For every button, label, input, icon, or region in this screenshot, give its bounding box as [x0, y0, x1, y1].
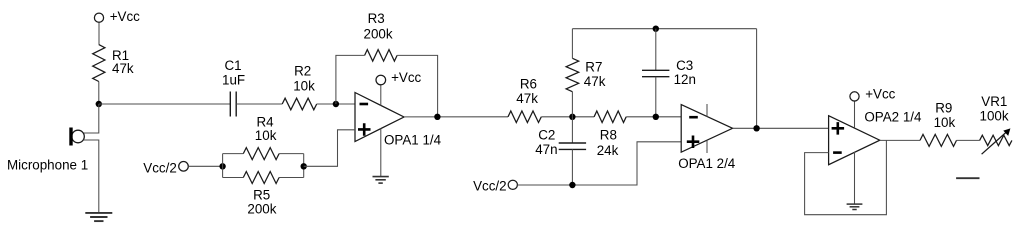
wire: Vcc/2 terminal to divider node — [188, 165, 222, 167]
junction node: output / R3 — [434, 114, 440, 120]
wire: R7 top to feedback rail — [571, 29, 573, 59]
svg-text:Vcc/2: Vcc/2 — [473, 179, 507, 194]
svg-text:12n: 12n — [674, 72, 696, 87]
svg-text:10k: 10k — [255, 128, 277, 143]
wire: node A up to R7 — [571, 92, 573, 117]
power terminal +Vcc (OPA1 1/4) — [376, 75, 386, 85]
wire: OPA1 1/4 output to R6 — [404, 116, 508, 118]
svg-text:10k: 10k — [293, 79, 315, 94]
resistor R2 — [282, 98, 317, 110]
op-amp U1 OPA1 1/4 — [355, 93, 404, 142]
wire: C1 to R2 — [236, 103, 282, 105]
wire: +Vcc terminal 1 to R1 top — [98, 22, 100, 44]
resistor R3 — [365, 50, 398, 62]
svg-text:C1: C1 — [225, 58, 242, 73]
svg-text:200k: 200k — [247, 201, 276, 216]
wire: OPA1 2/4 output to OPA2 input — [733, 127, 829, 129]
ground (OPA2) — [847, 204, 863, 209]
svg-text:Vcc/2: Vcc/2 — [143, 160, 177, 175]
svg-text:+Vcc: +Vcc — [110, 9, 140, 24]
wire: Vcc/2 rail to non-inverting input — [517, 142, 681, 185]
svg-text:R6: R6 — [520, 77, 537, 92]
junction node: R4/R5 left — [219, 163, 225, 169]
wire: feedback top rail — [572, 28, 756, 30]
capacitor C1 — [230, 92, 236, 117]
power terminal Vcc/2 (second stage) — [508, 180, 517, 189]
op-amp U2 OPA1 2/4 — [681, 105, 732, 153]
junction node: output / feedback — [753, 125, 759, 131]
svg-text:OPA1 2/4: OPA1 2/4 — [678, 156, 736, 171]
wire: microphone bottom terminal to ground — [83, 140, 98, 213]
wire: node down to microphone top terminal — [83, 104, 98, 133]
wire: +Vcc terminal to op-amp top — [380, 85, 382, 106]
power terminal Vcc/2 (left) — [179, 162, 189, 172]
wire: feedback loop OPA2 (unity gain) — [805, 140, 887, 214]
wire: OPA2 bottom to ground — [854, 152, 856, 205]
microphone symbol — [69, 128, 84, 146]
power pin stub bottom (OPA1 2/4) — [706, 140, 708, 153]
svg-text:VR1: VR1 — [981, 94, 1007, 109]
ground (microphone) — [85, 213, 112, 221]
wire: R3 right leg down to output node — [397, 55, 438, 116]
wire: R4/R5 parallel frame — [223, 154, 304, 178]
svg-text:C3: C3 — [676, 58, 693, 73]
svg-text:OPA1 1/4: OPA1 1/4 — [384, 132, 442, 147]
resistor R1 — [93, 45, 105, 82]
power terminal +Vcc (top left) — [94, 13, 103, 22]
resistor R7 — [566, 58, 579, 91]
output terminal dash — [956, 177, 979, 179]
wire: C3 down to inverting node — [655, 77, 657, 117]
svg-text:200k: 200k — [364, 26, 393, 41]
svg-text:1uF: 1uF — [222, 73, 245, 88]
wire: R2 to op-amp inverting input — [317, 103, 355, 105]
svg-text:47k: 47k — [584, 74, 606, 89]
wire: op-amp bottom to ground — [380, 128, 382, 176]
wire: +Vcc terminal to OPA2 top — [854, 101, 856, 128]
op-amp U3 OPA2 1/4 — [829, 116, 880, 165]
wire: R6 to node A — [541, 116, 594, 118]
junction node: R2 / R3 / op-amp — [333, 101, 339, 107]
power pin stub top (OPA1 2/4) — [706, 104, 708, 117]
wire: node A down to C2 — [571, 117, 573, 143]
wire: R8 to inverting node — [626, 116, 681, 118]
junction node A: R6/R7/R8/C2 — [569, 114, 575, 120]
junction node: C2 / Vcc/2 rail — [569, 182, 575, 188]
resistor R5 — [243, 172, 279, 184]
svg-text:Microphone 1: Microphone 1 — [7, 158, 88, 173]
svg-text:OPA2 1/4: OPA2 1/4 — [864, 110, 922, 125]
resistor R4 — [243, 148, 279, 160]
minus sign (OPA1 2/4 inverting input) — [689, 116, 698, 119]
svg-text:R7: R7 — [585, 60, 602, 75]
junction node: R4/R5 right — [301, 163, 307, 169]
potentiometer VR1 wiper arrow — [982, 128, 1011, 154]
wire: rail down to C3 — [655, 29, 657, 71]
svg-text:47k: 47k — [516, 91, 538, 106]
wire: C2 down to Vcc/2 rail — [571, 149, 573, 185]
svg-text:24k: 24k — [597, 143, 619, 158]
power terminal +Vcc (OPA2) — [850, 92, 859, 101]
wire: OPA2 output to R9 — [880, 139, 920, 141]
wire: feedback loop R3 left leg and rail — [336, 55, 365, 104]
minus sign (OPA2 1/4 inverting input) — [833, 151, 842, 154]
plus sign (OPA1 1/4 non-inverting input) — [358, 123, 371, 136]
svg-text:R2: R2 — [294, 64, 311, 79]
svg-text:47n: 47n — [535, 142, 557, 157]
wire: divider to op-amp non-inverting input — [304, 130, 355, 167]
wire: R9 to VR1 — [957, 139, 980, 141]
minus sign (OPA1 1/4 inverting input) — [360, 103, 369, 106]
capacitor C3 — [642, 70, 669, 76]
wire: input node to C1 — [99, 103, 231, 105]
potentiometer VR1 — [980, 135, 1012, 145]
plus sign (OPA2 1/4 non-inverting input) — [832, 122, 845, 135]
resistor R8 — [594, 111, 626, 123]
capacitor C2 — [559, 143, 586, 149]
plus sign (OPA1 2/4 non-inverting input) — [687, 136, 700, 149]
svg-text:10k: 10k — [934, 115, 956, 130]
junction node: mic / R1 / C1 — [96, 101, 102, 107]
junction node: R8 / C3 / op-amp inverting input — [653, 114, 659, 120]
resistor R9 — [920, 134, 957, 146]
svg-text:C2: C2 — [538, 127, 555, 142]
svg-text:100k: 100k — [980, 109, 1009, 124]
wire: R1 bottom to input node — [98, 82, 100, 105]
svg-text:47k: 47k — [112, 61, 134, 76]
svg-text:+Vcc: +Vcc — [865, 87, 895, 102]
ground (OPA1 1/4) — [373, 177, 389, 184]
svg-text:R9: R9 — [935, 101, 952, 116]
wire: output node up to feedback rail — [756, 29, 758, 129]
svg-text:+Vcc: +Vcc — [391, 70, 421, 85]
svg-text:R8: R8 — [600, 128, 617, 143]
svg-text:R5: R5 — [253, 187, 270, 202]
junction node: C3 / rail — [653, 26, 659, 32]
resistor R6 — [508, 111, 541, 123]
svg-text:R3: R3 — [368, 11, 385, 26]
